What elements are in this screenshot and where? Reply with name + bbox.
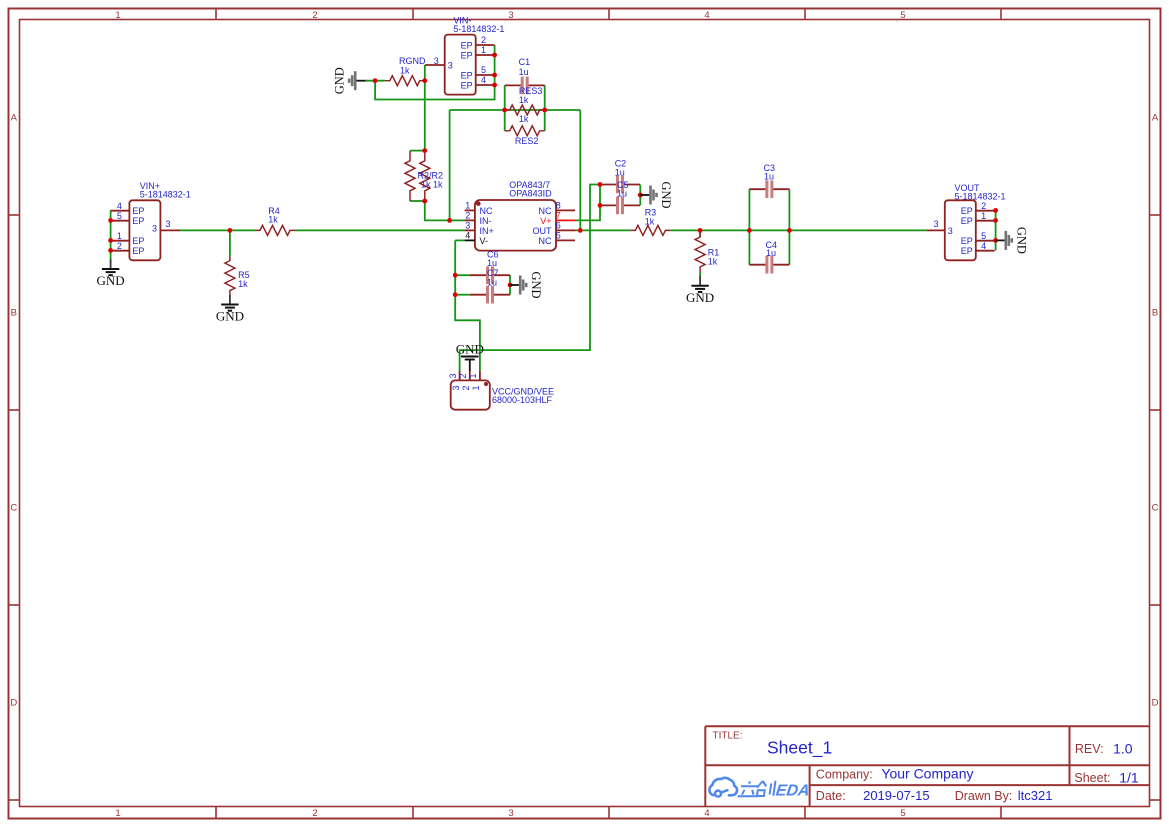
wire C6 C7 right rail bbox=[509, 275, 511, 295]
svg-text:1k 1k: 1k 1k bbox=[421, 179, 443, 189]
node junction C7 left bbox=[453, 292, 458, 297]
pin 3 IN+ of op-amp bbox=[465, 221, 494, 236]
pin 3 of VIN- bbox=[425, 56, 453, 70]
node junction C5 left bbox=[598, 203, 603, 208]
svg-text:2: 2 bbox=[458, 373, 468, 378]
svg-text:Sheet_1: Sheet_1 bbox=[767, 738, 832, 759]
svg-text:1: 1 bbox=[465, 201, 470, 211]
pin 2 IN- of op-amp bbox=[465, 211, 492, 226]
svg-text:B: B bbox=[1152, 308, 1158, 319]
wire RGND left junction down to bottom rail bbox=[375, 45, 495, 100]
svg-text:3: 3 bbox=[434, 56, 439, 66]
svg-text:REV:: REV: bbox=[1075, 742, 1104, 756]
ground GND at C2/C5 bbox=[640, 181, 673, 208]
svg-text:1k: 1k bbox=[238, 279, 248, 289]
svg-text:1u: 1u bbox=[766, 248, 776, 258]
capacitor C5 1u bbox=[600, 180, 640, 214]
wire C7 left tap bbox=[455, 294, 470, 296]
svg-text:1: 1 bbox=[481, 45, 486, 55]
EasyEDA logo text bbox=[737, 781, 811, 800]
svg-text:3: 3 bbox=[448, 60, 453, 70]
node junction C4 rail bbox=[787, 228, 792, 233]
svg-text:2: 2 bbox=[312, 808, 317, 819]
svg-text:4: 4 bbox=[117, 201, 122, 211]
connector VOUT 5-1814832-1 bbox=[945, 183, 1006, 260]
node junction C2/C5 right bbox=[638, 193, 643, 198]
node junction RES3 right bbox=[542, 108, 547, 113]
wire C1 right rail bbox=[544, 85, 546, 130]
wire feedback network top rail bbox=[450, 109, 581, 111]
svg-text:5-1814832-1: 5-1814832-1 bbox=[140, 190, 191, 200]
svg-text:4: 4 bbox=[704, 808, 709, 819]
svg-text:1: 1 bbox=[471, 385, 481, 390]
svg-text:1k: 1k bbox=[519, 95, 529, 105]
svg-text:Your Company: Your Company bbox=[881, 766, 973, 782]
capacitor C2 1u bbox=[600, 159, 640, 194]
svg-text:TITLE:: TITLE: bbox=[713, 731, 743, 742]
node junction VOUT pin2 bbox=[993, 208, 998, 213]
pin 5 NC of op-amp bbox=[539, 231, 576, 246]
svg-text:1: 1 bbox=[117, 231, 122, 241]
svg-text:D: D bbox=[10, 698, 17, 709]
wire feedback left rail to IN- node bbox=[449, 110, 451, 220]
wire feedback right rail to OUT bbox=[579, 110, 581, 230]
svg-text:A: A bbox=[1152, 113, 1159, 124]
svg-text:1k: 1k bbox=[645, 217, 655, 227]
svg-text:C: C bbox=[10, 503, 17, 514]
svg-text:GND: GND bbox=[1014, 227, 1028, 254]
wire R2 top jog bbox=[410, 150, 425, 152]
svg-text:1: 1 bbox=[981, 211, 986, 221]
svg-text:A: A bbox=[11, 113, 18, 124]
wire R2 bottom to op-amp IN- bbox=[425, 201, 465, 220]
wire R2 bottom jog bbox=[410, 200, 425, 202]
svg-text:5: 5 bbox=[900, 808, 905, 819]
svg-text:D: D bbox=[1152, 698, 1159, 709]
svg-text:EP: EP bbox=[461, 40, 473, 50]
wire VIN+ pin3 to R4 bbox=[180, 229, 255, 231]
pin 6 OUT of op-amp bbox=[533, 221, 576, 236]
svg-text:1u: 1u bbox=[487, 278, 497, 288]
svg-text:5: 5 bbox=[556, 231, 561, 241]
pin 4 V- of op-amp bbox=[465, 231, 488, 246]
svg-text:1k: 1k bbox=[708, 256, 718, 266]
node junction RGND left bbox=[373, 78, 378, 83]
pin 1 of power connector bbox=[468, 371, 481, 391]
svg-text:EP: EP bbox=[961, 216, 973, 226]
svg-text:EP: EP bbox=[132, 246, 144, 256]
pin 3 of VIN+ bbox=[152, 219, 180, 234]
svg-text:3: 3 bbox=[451, 385, 461, 390]
node junction RGND right bbox=[422, 78, 427, 83]
node junction VOUT pin1 bbox=[993, 218, 998, 223]
svg-text:1k: 1k bbox=[268, 215, 278, 225]
ground GND below VIN+ bbox=[97, 260, 125, 289]
node junction VIN+ pin5 bbox=[108, 218, 113, 223]
op-amp U1 OPA843ID bbox=[475, 180, 556, 251]
connector VCC/GND/VEE 68000-103HLF bbox=[451, 380, 554, 409]
svg-text:5: 5 bbox=[481, 65, 486, 75]
resistor RGND 1k bbox=[385, 56, 426, 86]
wire op-amp V+ to C2/C5 rail bbox=[575, 185, 600, 221]
svg-text:V-: V- bbox=[480, 236, 489, 246]
svg-text:EP: EP bbox=[132, 236, 144, 246]
svg-text:4: 4 bbox=[465, 231, 470, 241]
node junction R4/R5 bbox=[228, 228, 233, 233]
svg-text:IN-: IN- bbox=[480, 216, 492, 226]
pin 8 NC of op-amp bbox=[539, 201, 576, 216]
svg-text:B: B bbox=[11, 308, 17, 319]
pin 2 of power connector bbox=[458, 371, 471, 391]
wire V+ rail jog to VCC feed bbox=[460, 185, 600, 372]
svg-text:EP: EP bbox=[961, 236, 973, 246]
svg-text:EP: EP bbox=[961, 206, 973, 216]
svg-text:1: 1 bbox=[115, 10, 120, 21]
capacitor C6 1u bbox=[470, 250, 510, 284]
svg-text:Sheet:: Sheet: bbox=[1074, 771, 1110, 785]
svg-text:GND: GND bbox=[456, 342, 484, 357]
svg-text:Date:: Date: bbox=[816, 789, 846, 803]
resistor RES3 1k bbox=[505, 86, 545, 115]
wire VOUT pin bus bbox=[995, 210, 997, 250]
svg-text:1u: 1u bbox=[519, 67, 529, 77]
svg-text:3: 3 bbox=[934, 219, 939, 229]
pin 3 of VOUT bbox=[926, 219, 952, 236]
svg-text:1u: 1u bbox=[487, 258, 497, 268]
svg-text:2: 2 bbox=[312, 10, 317, 21]
svg-text:4: 4 bbox=[981, 241, 986, 251]
connector VIN- 5-1814832-1 bbox=[445, 16, 505, 95]
svg-text:1: 1 bbox=[115, 808, 120, 819]
svg-text:1u: 1u bbox=[764, 171, 774, 181]
wire R5 top bbox=[229, 230, 231, 255]
ground GND at C6/C7 bbox=[510, 271, 543, 298]
svg-text:3: 3 bbox=[508, 808, 513, 819]
wire VIN- pin3 to RGND/R2 vertical bbox=[424, 65, 426, 151]
wire VIN+ pin bus bbox=[110, 210, 112, 262]
resistor R3 1k bbox=[630, 207, 670, 235]
resistor R4 1k bbox=[255, 206, 295, 235]
connector VIN+ 5-1814832-1 bbox=[111, 181, 191, 260]
svg-text:NC: NC bbox=[539, 206, 552, 216]
svg-text:EP: EP bbox=[461, 70, 473, 80]
node junction C2 left bbox=[598, 182, 603, 187]
svg-text:4: 4 bbox=[704, 10, 709, 21]
wire R4 to op-amp IN+ bbox=[295, 229, 465, 231]
svg-text:3: 3 bbox=[508, 10, 513, 21]
svg-text:1k: 1k bbox=[519, 114, 529, 124]
EasyEDA logo cloud bbox=[709, 778, 737, 797]
capacitor C7 1u bbox=[470, 268, 510, 303]
svg-text:EP: EP bbox=[132, 206, 144, 216]
svg-text:3: 3 bbox=[448, 373, 458, 378]
svg-text:2: 2 bbox=[117, 241, 122, 251]
wire op-amp OUT to R3 bbox=[575, 229, 630, 231]
svg-text:5: 5 bbox=[981, 231, 986, 241]
wire op-amp V- down to connector bbox=[455, 240, 480, 371]
wire R1 top bbox=[699, 230, 701, 237]
svg-text:ltc321: ltc321 bbox=[1018, 788, 1053, 803]
svg-text:GND: GND bbox=[216, 309, 244, 324]
svg-text:3: 3 bbox=[948, 226, 953, 236]
svg-text:RGND: RGND bbox=[399, 56, 426, 66]
svg-text:3: 3 bbox=[152, 224, 157, 234]
svg-text:GND: GND bbox=[659, 181, 673, 208]
svg-text:2: 2 bbox=[465, 211, 470, 221]
svg-text:1.0: 1.0 bbox=[1113, 741, 1133, 757]
svg-text:EP: EP bbox=[461, 80, 473, 90]
ground GND below R5 bbox=[216, 295, 244, 324]
svg-text:EP: EP bbox=[132, 216, 144, 226]
svg-text:2: 2 bbox=[461, 385, 471, 390]
svg-text:2019-07-15: 2019-07-15 bbox=[863, 788, 930, 803]
svg-text:OPA843ID: OPA843ID bbox=[509, 189, 552, 199]
capacitor C3 1u bbox=[749, 163, 789, 198]
svg-text:GND: GND bbox=[97, 273, 125, 288]
svg-text:OUT: OUT bbox=[533, 226, 553, 236]
wire V- to op-amp pin4 stub bbox=[455, 239, 464, 241]
resistor R5 1k bbox=[225, 256, 250, 296]
svg-text:EP: EP bbox=[961, 246, 973, 256]
wire R3 to VOUT pin3 bbox=[670, 229, 926, 231]
node junction R2 top bbox=[422, 148, 427, 153]
resistor R1 1k bbox=[695, 232, 719, 272]
svg-text:2: 2 bbox=[981, 201, 986, 211]
wire C1 left rail bbox=[504, 85, 506, 130]
svg-text:Company:: Company: bbox=[816, 767, 873, 781]
node junction VIN- pin5 bbox=[492, 73, 497, 78]
wire C3 right rail bbox=[788, 189, 790, 265]
svg-text:C: C bbox=[1152, 503, 1159, 514]
svg-text:5: 5 bbox=[117, 211, 122, 221]
svg-text:NC: NC bbox=[480, 206, 493, 216]
node junction C3 rail bbox=[747, 228, 752, 233]
node junction IN- net bbox=[447, 218, 452, 223]
svg-text:1u: 1u bbox=[617, 189, 627, 199]
svg-text:IN+: IN+ bbox=[480, 226, 494, 236]
resistor R2 left of pair bbox=[405, 151, 415, 201]
wire C6 left tap bbox=[455, 274, 470, 276]
node junction R1 top bbox=[698, 228, 703, 233]
svg-text:3: 3 bbox=[166, 219, 171, 229]
node junction VIN- pin1 bbox=[492, 53, 497, 58]
node junction VOUT pin5 bbox=[993, 238, 998, 243]
svg-text:GND: GND bbox=[686, 290, 714, 305]
svg-text:6: 6 bbox=[556, 221, 561, 231]
svg-text:5: 5 bbox=[900, 10, 905, 21]
svg-text:1: 1 bbox=[468, 373, 478, 378]
svg-text:1k: 1k bbox=[400, 66, 410, 76]
svg-text:NC: NC bbox=[539, 236, 552, 246]
node junction R2 bottom bbox=[422, 199, 427, 204]
capacitor C4 1u bbox=[749, 240, 789, 274]
wire GND to RGND left lead bbox=[365, 80, 384, 82]
pin 3 of power connector bbox=[448, 371, 461, 391]
node junction OUT feedback bbox=[578, 228, 583, 233]
svg-text:C1: C1 bbox=[519, 57, 531, 67]
ground GND below R1 bbox=[686, 272, 714, 305]
svg-text:RES2: RES2 bbox=[515, 136, 539, 146]
svg-text:7: 7 bbox=[556, 211, 561, 221]
capacitor C1 1u bbox=[505, 57, 545, 94]
svg-text:1/1: 1/1 bbox=[1119, 770, 1139, 786]
svg-text:EDA: EDA bbox=[775, 781, 811, 799]
svg-text:GND: GND bbox=[333, 67, 347, 94]
svg-text:1u: 1u bbox=[615, 167, 625, 177]
ground GND at RGND bbox=[333, 67, 366, 94]
node junction VIN+ pin1 bbox=[108, 238, 113, 243]
wire C3 left rail bbox=[748, 189, 750, 265]
node junction VIN- pin4 bbox=[492, 83, 497, 88]
node junction C6/C7 right bbox=[508, 283, 513, 288]
resistor R2 right of pair bbox=[418, 151, 444, 201]
title block bbox=[705, 726, 1149, 806]
svg-text:EP: EP bbox=[461, 50, 473, 60]
node junction C6 left bbox=[453, 273, 458, 278]
ground GND above power connector bbox=[456, 342, 484, 372]
node junction RES3 left bbox=[502, 108, 507, 113]
resistor RES2 1k bbox=[505, 114, 545, 146]
pin 7 V+ of op-amp bbox=[540, 211, 575, 226]
pin 1 NC of op-amp bbox=[465, 201, 493, 216]
ground GND at VOUT bbox=[996, 227, 1029, 254]
svg-text:2: 2 bbox=[481, 35, 486, 45]
svg-text:5-1814832-1: 5-1814832-1 bbox=[453, 24, 504, 34]
svg-text:68000-103HLF: 68000-103HLF bbox=[492, 395, 553, 405]
svg-text:Drawn By:: Drawn By: bbox=[955, 789, 1013, 803]
svg-text:V+: V+ bbox=[540, 216, 551, 226]
svg-text:3: 3 bbox=[465, 221, 470, 231]
svg-text:8: 8 bbox=[556, 201, 561, 211]
wire C2 C5 right rail bbox=[639, 185, 641, 206]
svg-text:GND: GND bbox=[529, 271, 543, 298]
node junction VIN+ pin2 bbox=[108, 248, 113, 253]
svg-text:4: 4 bbox=[481, 75, 486, 85]
